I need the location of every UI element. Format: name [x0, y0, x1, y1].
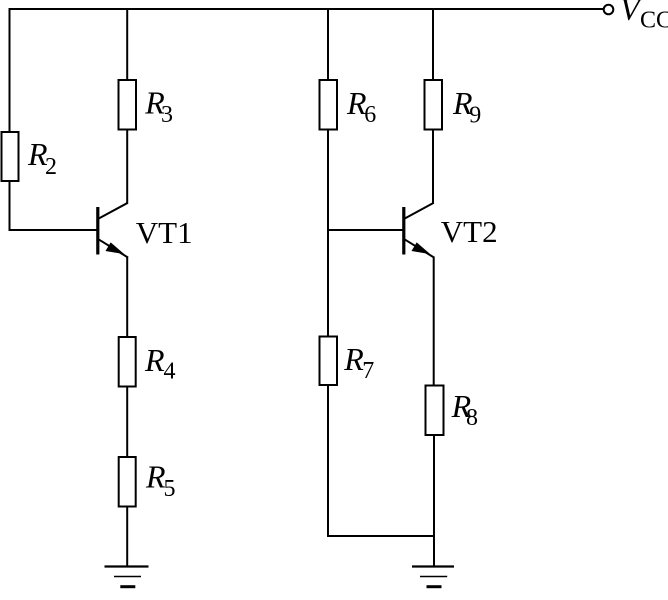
- wire left branch drop to R2: [9, 8, 11, 132]
- svg-text:6: 6: [364, 102, 376, 128]
- wire R8 bottom to ground: [433, 435, 435, 567]
- wire VT2 base horizontal: [328, 229, 404, 231]
- svg-text:CC: CC: [640, 8, 668, 34]
- wire R4 to R5: [126, 387, 128, 458]
- resistor R7: [320, 337, 338, 386]
- resistor R3: [119, 80, 137, 130]
- wire R3 top drop: [126, 8, 128, 80]
- svg-text:9: 9: [469, 103, 481, 129]
- label R7: [343, 341, 374, 384]
- wire VT2 emitter down to R8: [433, 257, 435, 386]
- label R2: [27, 136, 57, 180]
- svg-text:R: R: [144, 342, 165, 378]
- transistor VT2: [404, 203, 434, 258]
- wire VT1 base horizontal: [9, 229, 98, 231]
- label Vcc: [620, 0, 668, 34]
- wire R9 bottom to VT2 collector: [432, 130, 434, 204]
- wire R6 bottom through base tap to R7: [327, 130, 329, 337]
- label R5: [145, 459, 176, 503]
- svg-text:5: 5: [164, 476, 176, 502]
- svg-text:VT2: VT2: [441, 214, 498, 249]
- svg-text:3: 3: [161, 102, 173, 128]
- svg-text:2: 2: [45, 154, 57, 180]
- svg-text:R: R: [343, 341, 364, 377]
- resistor R8: [426, 386, 444, 436]
- label R6: [346, 85, 376, 128]
- svg-text:8: 8: [466, 405, 478, 431]
- resistor R5: [119, 457, 136, 507]
- transistor VT1: [98, 203, 128, 258]
- terminal Vcc circle: [604, 5, 614, 15]
- label R9: [452, 85, 481, 129]
- ground right: [412, 567, 454, 587]
- svg-text:7: 7: [362, 358, 374, 384]
- wire VT1 emitter down to R4: [126, 257, 128, 338]
- wire top supply rail: [9, 8, 604, 10]
- wire R5 to ground: [126, 507, 128, 567]
- label R3: [144, 85, 173, 129]
- svg-text:4: 4: [164, 359, 176, 385]
- resistor R6: [320, 80, 338, 130]
- label R8: [451, 388, 478, 431]
- resistor R4: [119, 337, 136, 387]
- wire R7 bottom drop: [327, 385, 329, 536]
- resistor R9: [425, 80, 443, 130]
- wire R3 bottom to VT1 collector: [126, 130, 128, 204]
- wire bottom horizontal R7 to emitter node: [327, 535, 434, 537]
- ground left: [105, 567, 149, 587]
- resistor R2: [2, 132, 19, 181]
- wire R2 bottom to base corner: [9, 181, 11, 231]
- label R4: [144, 342, 176, 385]
- svg-text:VT1: VT1: [136, 215, 193, 250]
- wire R6 top drop: [327, 8, 329, 80]
- wire R9 top drop: [432, 8, 434, 80]
